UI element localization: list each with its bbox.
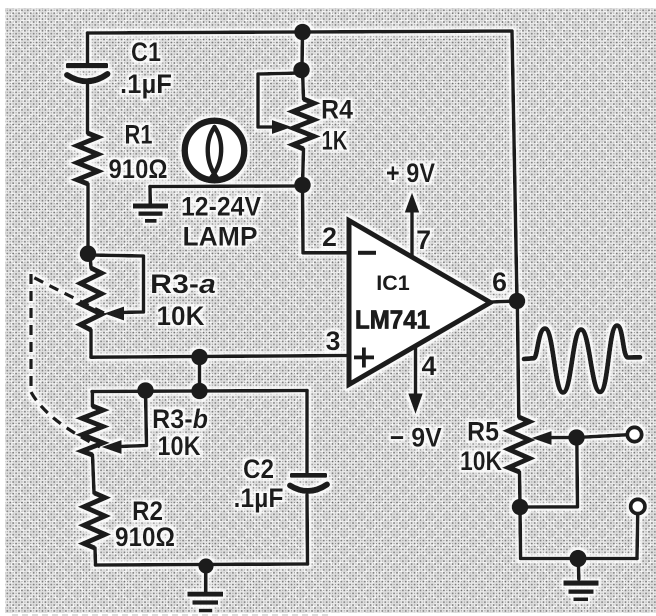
- svg-text:LAMP: LAMP: [183, 222, 258, 252]
- svg-text:C2: C2: [243, 454, 274, 484]
- svg-text:12-24V: 12-24V: [181, 192, 261, 222]
- svg-text:7: 7: [416, 225, 431, 255]
- svg-text:2: 2: [322, 222, 337, 252]
- svg-text:R3-a: R3-a: [150, 269, 216, 299]
- svg-text:10K: 10K: [157, 301, 205, 331]
- svg-text:R5: R5: [467, 417, 499, 447]
- svg-text:+ 9V: + 9V: [386, 158, 435, 188]
- svg-text:.1µF: .1µF: [120, 69, 172, 99]
- svg-text:R1: R1: [125, 120, 153, 150]
- svg-text:10K: 10K: [460, 446, 502, 476]
- svg-text:910Ω: 910Ω: [115, 522, 175, 552]
- svg-text:10K: 10K: [158, 431, 201, 461]
- svg-text:LM741: LM741: [355, 307, 430, 335]
- svg-text:6: 6: [492, 267, 507, 297]
- svg-text:R3-b: R3-b: [152, 404, 208, 434]
- svg-text:IC1: IC1: [376, 271, 410, 295]
- svg-text:R4: R4: [321, 95, 353, 125]
- svg-text:4: 4: [421, 351, 436, 381]
- svg-text:3: 3: [325, 326, 340, 356]
- svg-text:1K: 1K: [322, 126, 348, 156]
- svg-text:− 9V: − 9V: [390, 423, 442, 453]
- svg-text:C1: C1: [131, 37, 161, 67]
- svg-text:910Ω: 910Ω: [109, 154, 168, 184]
- svg-text:.1µF: .1µF: [234, 483, 284, 513]
